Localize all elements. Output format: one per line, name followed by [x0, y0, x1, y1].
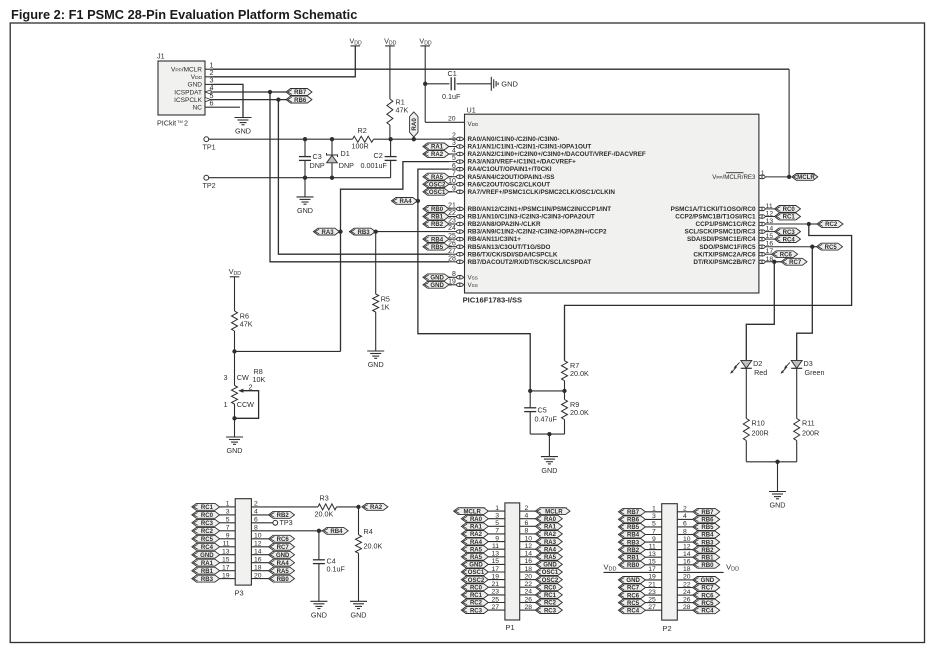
svg-text:13: 13 [766, 218, 774, 225]
svg-text:RC2: RC2 [201, 529, 214, 535]
svg-text:VPP/MCLR: VPP/MCLR [171, 67, 202, 74]
svg-text:20: 20 [525, 573, 533, 580]
svg-text:16: 16 [683, 559, 691, 566]
svg-text:5: 5 [452, 155, 456, 162]
svg-text:6: 6 [452, 163, 456, 170]
svg-text:VSS: VSS [468, 282, 478, 289]
svg-text:RB4: RB4 [627, 533, 640, 539]
svg-text:RA5: RA5 [277, 569, 290, 575]
svg-text:28: 28 [448, 255, 456, 262]
svg-text:RA0/AN0/C1IN0-/C2IN0-/C3IN0-: RA0/AN0/C1IN0-/C2IN0-/C3IN0- [468, 136, 560, 143]
svg-text:9: 9 [452, 185, 456, 192]
svg-text:RB0: RB0 [701, 563, 714, 569]
svg-text:RC1: RC1 [470, 593, 483, 599]
svg-text:15: 15 [648, 559, 656, 566]
svg-text:PICkit: PICkit [157, 119, 176, 128]
svg-text:GND: GND [701, 578, 715, 584]
svg-text:RC6: RC6 [277, 537, 290, 543]
svg-text:47K: 47K [396, 106, 409, 115]
svg-text:GND: GND [227, 446, 243, 455]
svg-text:11: 11 [492, 543, 499, 550]
svg-text:DNP: DNP [339, 161, 354, 170]
svg-text:RA5: RA5 [544, 555, 557, 561]
svg-text:R10: R10 [752, 419, 765, 428]
svg-text:RA3: RA3 [322, 230, 335, 236]
svg-text:PSMC1A/T1CKI/T1OSO/RC0: PSMC1A/T1CKI/T1OSO/RC0 [671, 206, 756, 213]
svg-text:RA4: RA4 [470, 540, 483, 546]
svg-text:7: 7 [452, 170, 456, 177]
svg-text:RB1: RB1 [431, 215, 444, 221]
svg-text:RC7: RC7 [277, 545, 290, 551]
svg-text:GND: GND [276, 553, 290, 559]
svg-text:RB4: RB4 [330, 529, 343, 535]
svg-text:GND: GND [469, 563, 483, 569]
svg-text:TP3: TP3 [280, 518, 293, 527]
svg-text:RB5: RB5 [431, 245, 444, 251]
svg-text:MCLR: MCLR [797, 175, 815, 181]
svg-text:RA2: RA2 [544, 532, 557, 538]
svg-text:10: 10 [525, 535, 533, 542]
svg-text:GND: GND [311, 611, 327, 620]
svg-text:20: 20 [683, 574, 691, 581]
svg-text:RB6: RB6 [701, 518, 714, 524]
svg-text:CK/TX/PSMC2A/RC6: CK/TX/PSMC2A/RC6 [693, 251, 756, 258]
svg-text:GND: GND [541, 466, 557, 475]
svg-text:27: 27 [491, 604, 499, 611]
svg-text:RB1/AN10/C1IN3-/C2IN3-/C3IN3-/: RB1/AN10/C1IN3-/C2IN3-/C3IN3-/OPA2OUT [468, 214, 595, 221]
svg-text:1: 1 [652, 506, 656, 513]
svg-text:8: 8 [452, 271, 456, 278]
svg-text:RC4: RC4 [701, 608, 714, 614]
svg-text:NC: NC [193, 105, 203, 112]
svg-text:RC3: RC3 [470, 608, 483, 614]
svg-text:RC6: RC6 [780, 252, 793, 258]
svg-text:CW: CW [237, 373, 249, 382]
svg-text:RA4: RA4 [400, 199, 413, 205]
svg-text:RA5: RA5 [431, 175, 444, 181]
svg-text:RB1: RB1 [627, 555, 640, 561]
svg-text:RC5: RC5 [201, 537, 214, 543]
svg-text:11: 11 [766, 203, 773, 210]
svg-text:27: 27 [448, 248, 456, 255]
svg-text:20.0K: 20.0K [570, 408, 589, 417]
svg-text:Red: Red [754, 368, 767, 377]
svg-text:RB7: RB7 [627, 510, 640, 516]
svg-text:9: 9 [226, 533, 230, 540]
svg-text:R4: R4 [364, 527, 373, 536]
svg-text:RB3: RB3 [701, 540, 714, 546]
svg-text:RB6/TX/CK/SDI/SDA/ICSPCLK: RB6/TX/CK/SDI/SDA/ICSPCLK [468, 251, 558, 258]
svg-text:SCL/SCK/PSMC1D/RC3: SCL/SCK/PSMC1D/RC3 [684, 229, 755, 236]
svg-text:22: 22 [525, 581, 533, 588]
svg-text:GND: GND [200, 553, 214, 559]
svg-text:RC6: RC6 [701, 593, 714, 599]
svg-text:RB3/AN9/C1IN2-/C2IN2-/C3IN2-/O: RB3/AN9/C1IN2-/C2IN2-/C3IN2-/OPA2IN+/CCP… [468, 229, 607, 236]
svg-text:R11: R11 [802, 419, 815, 428]
svg-text:MCLR: MCLR [463, 509, 481, 515]
svg-text:RB3: RB3 [358, 230, 371, 236]
svg-text:RA4: RA4 [544, 547, 557, 553]
svg-text:P1: P1 [506, 623, 515, 632]
svg-text:D3: D3 [804, 359, 813, 368]
svg-text:RB3: RB3 [201, 577, 214, 583]
svg-text:RC0: RC0 [201, 513, 214, 519]
svg-text:0.47uF: 0.47uF [535, 415, 558, 424]
svg-text:OSC1: OSC1 [429, 190, 446, 196]
svg-text:RC7: RC7 [701, 586, 714, 592]
svg-text:RA0: RA0 [544, 517, 557, 523]
svg-text:RC0: RC0 [544, 586, 557, 592]
svg-text:RC1: RC1 [544, 593, 557, 599]
svg-text:U1: U1 [467, 106, 476, 115]
svg-text:OSC1: OSC1 [542, 570, 559, 576]
svg-text:0.1uF: 0.1uF [327, 565, 346, 574]
svg-text:16: 16 [766, 241, 774, 248]
svg-text:RB6: RB6 [627, 518, 640, 524]
svg-text:SDO/PSMC1F/RC5: SDO/PSMC1F/RC5 [699, 244, 756, 251]
svg-text:R2: R2 [358, 126, 367, 135]
svg-text:TP1: TP1 [203, 143, 216, 152]
svg-text:VSS: VSS [468, 275, 478, 282]
svg-text:RA1/AN1/C1IN1-/C2IN1-/C3IN1-/O: RA1/AN1/C1IN1-/C2IN1-/C3IN1-/OPA1OUT [468, 144, 592, 151]
svg-text:2: 2 [452, 133, 456, 140]
svg-text:GND: GND [501, 79, 518, 88]
svg-text:ICSPDAT: ICSPDAT [174, 89, 202, 96]
svg-text:26: 26 [525, 596, 533, 603]
svg-text:4: 4 [525, 513, 529, 520]
svg-text:C3: C3 [313, 152, 322, 161]
svg-text:1: 1 [761, 170, 765, 177]
svg-text:5: 5 [226, 517, 230, 524]
svg-text:D2: D2 [753, 359, 762, 368]
svg-text:3: 3 [226, 509, 230, 516]
svg-text:RB0: RB0 [277, 577, 290, 583]
svg-text:GND: GND [368, 360, 384, 369]
svg-text:RB4: RB4 [701, 533, 714, 539]
svg-text:3: 3 [495, 513, 499, 520]
svg-text:19: 19 [648, 574, 656, 581]
svg-text:CCW: CCW [237, 400, 254, 409]
svg-text:TM: TM [177, 119, 183, 124]
svg-text:GND: GND [188, 82, 203, 89]
svg-text:17: 17 [491, 566, 499, 573]
svg-text:RB4: RB4 [431, 237, 444, 243]
svg-text:GND: GND [430, 283, 444, 289]
svg-text:9: 9 [495, 535, 499, 542]
svg-text:25: 25 [491, 596, 499, 603]
svg-text:200R: 200R [802, 429, 819, 438]
svg-text:RA0: RA0 [411, 118, 418, 131]
svg-text:RC7: RC7 [789, 260, 802, 266]
svg-text:13: 13 [491, 551, 499, 558]
svg-text:15: 15 [491, 558, 499, 565]
svg-text:20.0K: 20.0K [315, 509, 334, 518]
svg-text:RA6/C2OUT/OSC2/CLKOUT: RA6/C2OUT/OSC2/CLKOUT [468, 181, 551, 188]
svg-text:27: 27 [648, 604, 656, 611]
svg-text:GND: GND [430, 276, 444, 282]
svg-text:RA3: RA3 [544, 540, 557, 546]
svg-text:24: 24 [525, 589, 533, 596]
svg-text:GND: GND [235, 127, 251, 136]
svg-text:RB7/DACOUT2/RX/DT/SCK/SCL/ICSP: RB7/DACOUT2/RX/DT/SCK/SCL/ICSPDAT [468, 259, 592, 266]
svg-text:CCP2/PSMC1B/T1OSI/RC1: CCP2/PSMC1B/T1OSI/RC1 [675, 214, 756, 221]
svg-text:RC3: RC3 [201, 521, 214, 527]
svg-text:0.001uF: 0.001uF [361, 161, 388, 170]
svg-text:1: 1 [226, 501, 230, 508]
svg-text:2: 2 [249, 383, 253, 392]
svg-text:RA5: RA5 [470, 555, 483, 561]
svg-text:RC4: RC4 [627, 608, 640, 614]
svg-text:16: 16 [525, 558, 533, 565]
svg-text:P2: P2 [663, 624, 672, 633]
svg-text:RC1: RC1 [783, 215, 796, 221]
svg-text:PIC16F1783-I/SS: PIC16F1783-I/SS [463, 295, 523, 304]
svg-text:7: 7 [652, 528, 656, 535]
svg-text:RB5: RB5 [627, 525, 640, 531]
svg-text:4: 4 [683, 513, 687, 520]
svg-text:RA4/C1OUT/OPAIN1+/T0CKI: RA4/C1OUT/OPAIN1+/T0CKI [468, 166, 552, 173]
svg-text:20.0K: 20.0K [570, 369, 589, 378]
svg-text:OSC2: OSC2 [468, 578, 485, 584]
svg-text:RB6: RB6 [294, 98, 307, 104]
svg-text:12: 12 [683, 543, 691, 550]
svg-text:5: 5 [495, 520, 499, 527]
svg-text:RA1: RA1 [470, 525, 483, 531]
svg-text:RA2: RA2 [470, 532, 483, 538]
svg-text:1K: 1K [381, 303, 390, 312]
svg-text:9: 9 [652, 536, 656, 543]
svg-text:22: 22 [683, 581, 691, 588]
svg-text:7: 7 [495, 528, 499, 535]
svg-text:DT/RX/PSMC2B/RC7: DT/RX/PSMC2B/RC7 [693, 259, 756, 266]
svg-text:20.0K: 20.0K [364, 542, 383, 551]
svg-text:2: 2 [525, 505, 529, 512]
svg-text:J1: J1 [157, 52, 165, 61]
svg-text:RC5: RC5 [627, 601, 640, 607]
svg-text:RC4: RC4 [201, 545, 214, 551]
svg-text:RB5: RB5 [701, 525, 714, 531]
svg-text:6: 6 [525, 520, 529, 527]
svg-text:1: 1 [495, 505, 499, 512]
svg-text:GND: GND [626, 578, 640, 584]
svg-text:1: 1 [224, 402, 228, 409]
svg-text:RC3: RC3 [544, 608, 557, 614]
svg-text:RA4: RA4 [277, 561, 290, 567]
svg-text:21: 21 [648, 581, 656, 588]
svg-text:P3: P3 [235, 588, 244, 597]
svg-text:RA1: RA1 [201, 561, 214, 567]
svg-text:RC7: RC7 [627, 586, 640, 592]
svg-text:21: 21 [491, 581, 499, 588]
svg-text:Green: Green [805, 368, 825, 377]
svg-text:10K: 10K [253, 375, 266, 384]
svg-text:RA5/AN4/C2OUT/OPAIN1-/SS: RA5/AN4/C2OUT/OPAIN1-/SS [468, 174, 555, 181]
svg-text:17: 17 [222, 565, 230, 572]
svg-text:25: 25 [648, 596, 656, 603]
svg-text:RB0: RB0 [431, 207, 444, 213]
svg-text:0.1uF: 0.1uF [442, 92, 461, 101]
svg-text:GND: GND [543, 563, 557, 569]
svg-text:RA1: RA1 [431, 145, 444, 151]
svg-text:RC1: RC1 [201, 505, 214, 511]
svg-text:RA3/AN3/VREF+/C1IN1+/DACVREF+: RA3/AN3/VREF+/C1IN1+/DACVREF+ [468, 159, 577, 166]
svg-text:RB2: RB2 [431, 222, 444, 228]
svg-text:RB0/AN12/C2IN1+/PSMC1IN/PSMC2I: RB0/AN12/C2IN1+/PSMC1IN/PSMC2IN/CCP1/INT [468, 206, 612, 213]
svg-text:13: 13 [648, 551, 656, 558]
svg-text:4: 4 [452, 148, 456, 155]
svg-text:8: 8 [683, 528, 687, 535]
svg-text:3: 3 [652, 513, 656, 520]
svg-text:C2: C2 [374, 151, 383, 160]
svg-text:RB1: RB1 [701, 555, 714, 561]
svg-text:GND: GND [297, 206, 313, 215]
svg-text:200R: 200R [752, 429, 769, 438]
svg-text:15: 15 [222, 557, 230, 564]
svg-text:OSC2: OSC2 [542, 578, 559, 584]
svg-text:CCP1/PSMC1C/RC2: CCP1/PSMC1C/RC2 [695, 221, 755, 228]
svg-text:RC5: RC5 [825, 245, 838, 251]
svg-text:TP2: TP2 [203, 181, 216, 190]
svg-text:7: 7 [226, 525, 230, 532]
svg-text:RB2/AN8/OPA2IN-/CLKR: RB2/AN8/OPA2IN-/CLKR [468, 221, 541, 228]
svg-text:RB2: RB2 [627, 548, 640, 554]
svg-text:RB7: RB7 [701, 510, 714, 516]
svg-text:47K: 47K [240, 320, 253, 329]
svg-text:RA2: RA2 [370, 505, 383, 511]
svg-text:RA7/VREF+/PSMC1CLK/PSMC2CLK/OS: RA7/VREF+/PSMC1CLK/PSMC2CLK/OSC1/CLKIN [468, 189, 616, 196]
svg-text:RC2: RC2 [825, 222, 838, 228]
svg-text:SDA/SDI/PSMC1E/RC4: SDA/SDI/PSMC1E/RC4 [687, 236, 756, 243]
svg-text:RB2: RB2 [701, 548, 714, 554]
svg-text:24: 24 [448, 225, 456, 232]
svg-text:10: 10 [683, 536, 691, 543]
svg-text:RC6: RC6 [627, 593, 640, 599]
svg-text:19: 19 [222, 572, 230, 579]
svg-text:RB7: RB7 [294, 90, 307, 96]
svg-text:23: 23 [491, 589, 499, 596]
svg-text:RC2: RC2 [544, 601, 557, 607]
svg-text:RA1: RA1 [544, 525, 557, 531]
svg-text:RC0: RC0 [470, 586, 483, 592]
svg-text:6: 6 [683, 521, 687, 528]
svg-text:RA5: RA5 [470, 547, 483, 553]
svg-text:18: 18 [525, 566, 533, 573]
svg-text:RA2/AN2/C1IN0+/C2IN0+/C3IN0+/D: RA2/AN2/C1IN0+/C2IN0+/C3IN0+/DACOUT/VREF… [468, 151, 646, 158]
svg-text:RA2: RA2 [431, 152, 444, 158]
svg-text:D1: D1 [341, 149, 350, 158]
svg-text:RB5/AN13/C3OUT/T1G/SDO: RB5/AN13/C3OUT/T1G/SDO [468, 244, 551, 251]
svg-text:VDD: VDD [468, 121, 479, 128]
svg-text:3: 3 [452, 140, 456, 147]
svg-text:5: 5 [652, 521, 656, 528]
svg-text:14: 14 [525, 551, 533, 558]
svg-text:26: 26 [683, 596, 691, 603]
svg-text:DNP: DNP [310, 161, 325, 170]
svg-text:RB1: RB1 [201, 569, 214, 575]
svg-text:14: 14 [766, 226, 774, 233]
svg-text:19: 19 [491, 573, 499, 580]
svg-text:8: 8 [525, 528, 529, 535]
svg-text:RC3: RC3 [783, 230, 796, 236]
svg-text:C5: C5 [538, 406, 547, 415]
svg-text:R3: R3 [320, 494, 329, 503]
svg-text:12: 12 [766, 211, 774, 218]
svg-text:VPP/MCLR/RE3: VPP/MCLR/RE3 [712, 174, 756, 181]
svg-text:GND: GND [770, 501, 786, 510]
svg-text:28: 28 [525, 604, 533, 611]
svg-text:RC5: RC5 [701, 601, 714, 607]
svg-text:RB3: RB3 [627, 540, 640, 546]
svg-text:Figure 2: F1 PSMC 28-Pin Evalu: Figure 2: F1 PSMC 28-Pin Evaluation Plat… [11, 7, 357, 22]
svg-text:12: 12 [525, 543, 533, 550]
svg-text:VDD: VDD [191, 74, 203, 81]
svg-text:24: 24 [683, 589, 691, 596]
svg-text:OSC2: OSC2 [429, 182, 446, 188]
svg-text:ICSPCLK: ICSPCLK [174, 97, 202, 104]
svg-text:2: 2 [683, 506, 687, 513]
svg-text:RA0: RA0 [470, 517, 483, 523]
svg-text:11: 11 [222, 541, 229, 548]
svg-text:C1: C1 [448, 69, 457, 78]
svg-text:RC2: RC2 [470, 601, 483, 607]
svg-text:15: 15 [766, 233, 774, 240]
svg-text:2: 2 [184, 119, 188, 128]
svg-text:RC4: RC4 [783, 237, 796, 243]
svg-text:3: 3 [224, 375, 228, 382]
svg-text:RB4/AN11/C3IN1+: RB4/AN11/C3IN1+ [468, 236, 522, 243]
svg-text:RB0: RB0 [627, 563, 640, 569]
svg-text:28: 28 [683, 604, 691, 611]
svg-text:100R: 100R [352, 142, 369, 151]
svg-text:14: 14 [683, 551, 691, 558]
svg-text:20: 20 [448, 115, 456, 122]
svg-text:MCLR: MCLR [545, 509, 563, 515]
svg-text:OSC1: OSC1 [468, 570, 485, 576]
svg-text:23: 23 [648, 589, 656, 596]
svg-text:RC0: RC0 [783, 207, 796, 213]
svg-text:13: 13 [222, 549, 230, 556]
svg-text:GND: GND [351, 611, 367, 620]
svg-text:11: 11 [649, 543, 656, 550]
